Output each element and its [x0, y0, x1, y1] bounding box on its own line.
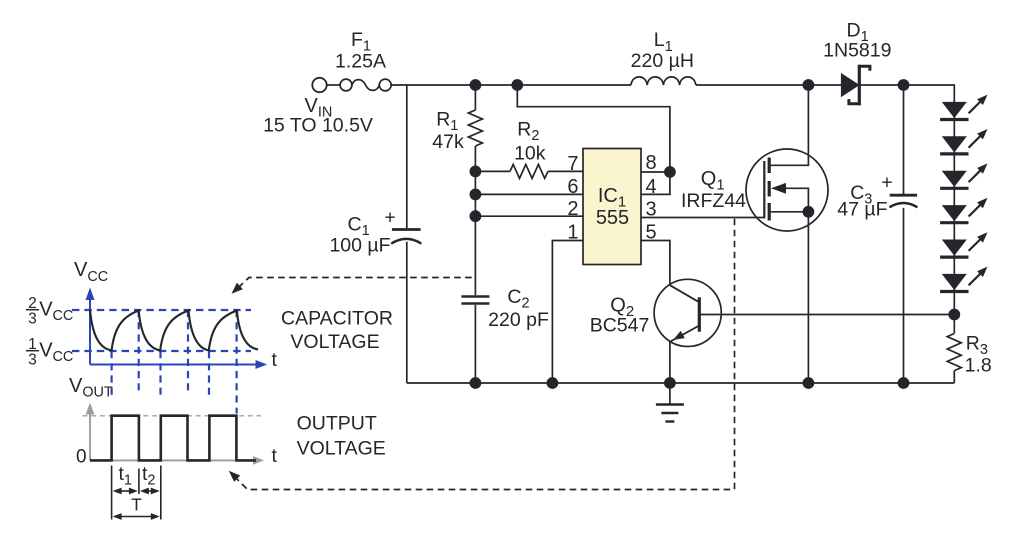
svg-text:t: t: [272, 445, 278, 467]
svg-text:1.25A: 1.25A: [335, 51, 386, 73]
svg-text:3: 3: [646, 199, 657, 221]
svg-text:VOLTAGE: VOLTAGE: [297, 437, 386, 459]
svg-text:47 µF: 47 µF: [837, 198, 887, 220]
svg-text:3: 3: [28, 311, 37, 328]
svg-text:7: 7: [567, 153, 578, 175]
svg-text:1N5819: 1N5819: [823, 39, 891, 61]
svg-text:5: 5: [646, 222, 657, 244]
svg-text:VOLTAGE: VOLTAGE: [290, 331, 379, 353]
svg-text:OUTPUT: OUTPUT: [297, 412, 377, 434]
svg-text:220 pF: 220 pF: [488, 309, 549, 331]
svg-text:15 TO 10.5V: 15 TO 10.5V: [263, 115, 373, 137]
svg-text:0: 0: [76, 447, 87, 468]
svg-text:4: 4: [646, 176, 657, 198]
svg-text:CAPACITOR: CAPACITOR: [281, 308, 393, 330]
svg-text:8: 8: [646, 152, 657, 174]
svg-text:2: 2: [567, 198, 578, 220]
svg-text:555: 555: [596, 207, 629, 229]
svg-text:6: 6: [567, 176, 578, 198]
svg-text:T: T: [131, 495, 142, 515]
svg-text:+: +: [881, 172, 892, 194]
svg-text:1.8: 1.8: [965, 354, 992, 376]
svg-text:+: +: [384, 206, 395, 228]
svg-text:BC547: BC547: [590, 315, 650, 337]
svg-text:IRFZ44: IRFZ44: [681, 190, 746, 212]
svg-text:t: t: [272, 349, 278, 371]
svg-text:47k: 47k: [432, 131, 464, 153]
svg-text:1: 1: [567, 222, 578, 244]
svg-text:10k: 10k: [514, 143, 546, 165]
svg-text:3: 3: [28, 352, 37, 369]
svg-text:100 µF: 100 µF: [329, 235, 390, 257]
svg-text:220 µH: 220 µH: [631, 50, 694, 72]
